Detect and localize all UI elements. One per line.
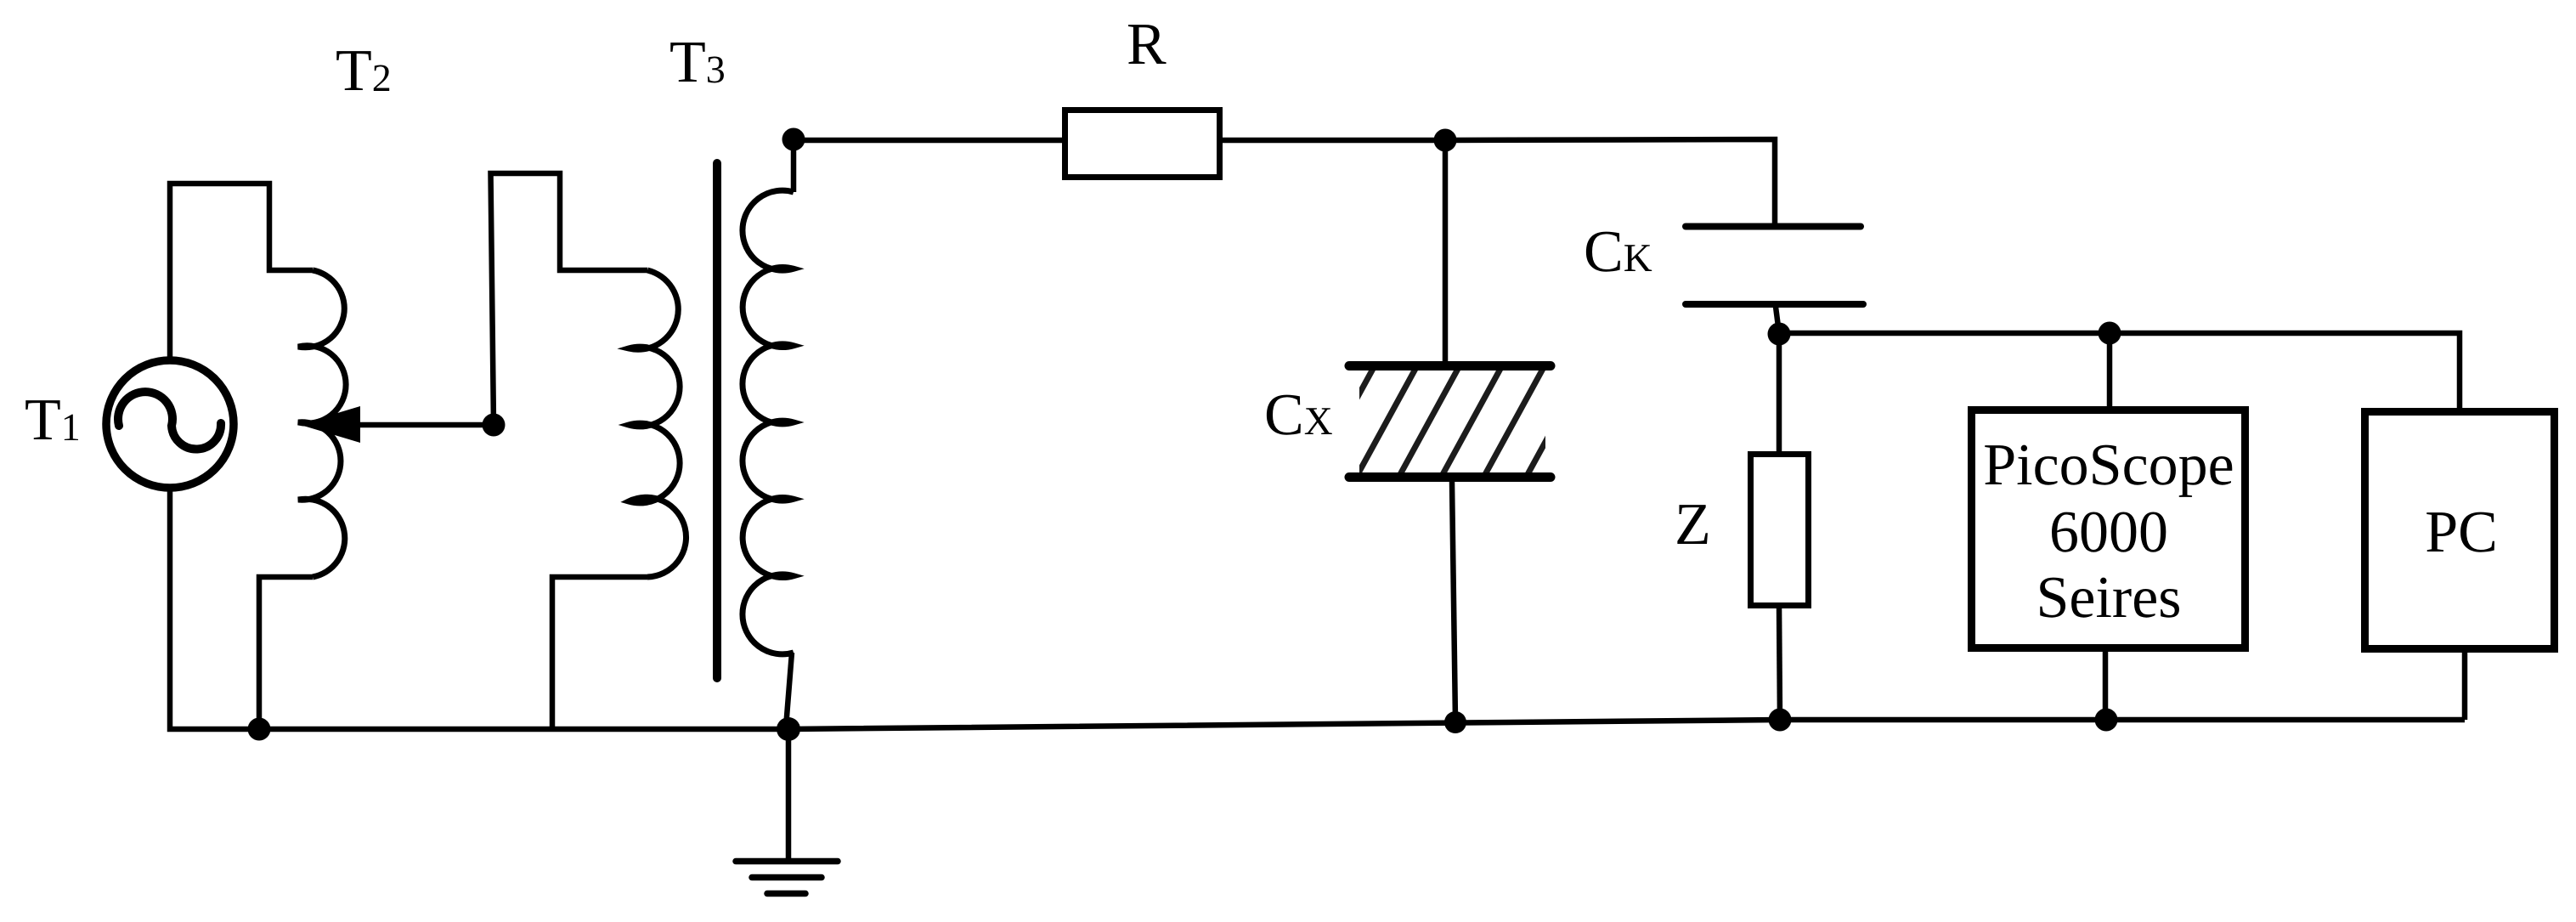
svg-text:R: R bbox=[1127, 12, 1167, 77]
svg-text:Z: Z bbox=[1675, 492, 1711, 557]
svg-text:Seires: Seires bbox=[2036, 565, 2181, 631]
svg-text:PicoScope: PicoScope bbox=[1983, 433, 2234, 498]
svg-text:PC: PC bbox=[2425, 500, 2498, 565]
svg-text:6000: 6000 bbox=[2049, 500, 2168, 565]
